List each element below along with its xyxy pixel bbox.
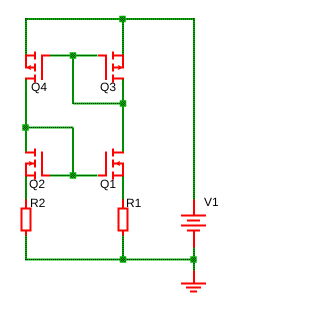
svg-text:R1: R1 — [126, 196, 142, 210]
svg-text:Q2: Q2 — [29, 177, 45, 191]
svg-text:V1: V1 — [204, 195, 219, 209]
svg-text:Q1: Q1 — [100, 177, 116, 191]
svg-text:Q4: Q4 — [31, 80, 47, 94]
svg-text:Q3: Q3 — [100, 80, 116, 94]
svg-text:R2: R2 — [30, 196, 46, 210]
